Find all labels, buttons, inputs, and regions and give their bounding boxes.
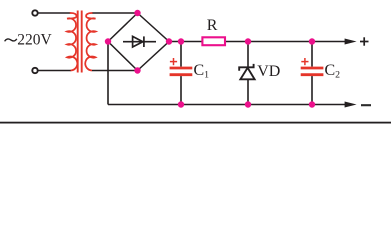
svg-text:C1: C1	[194, 62, 210, 80]
wire positive rail: resistor to arrow	[224, 41, 347, 43]
svg-text:VD: VD	[257, 63, 280, 80]
bridge rectifier diamond	[108, 13, 169, 71]
wire C1 bottom lead	[180, 76, 182, 104]
output arrow positive	[345, 39, 357, 45]
junction node C2 top	[309, 38, 315, 44]
output arrow negative	[345, 102, 357, 108]
label ~220V	[5, 32, 53, 49]
wire positive rail: bridge right corner to resistor	[169, 41, 203, 43]
junction node C1 bottom	[178, 101, 184, 107]
wire top-left to transformer primary	[38, 12, 70, 14]
junction node bridge right	[166, 38, 172, 44]
svg-text:220V: 220V	[17, 32, 52, 49]
transformer T core	[78, 11, 82, 73]
zener diode VD	[239, 64, 254, 79]
wire secondary bottom to bridge bottom corner	[92, 70, 138, 72]
diode D inside bridge	[123, 36, 156, 47]
wire bridge left corner down to negative rail	[107, 42, 109, 105]
junction node C1 top	[178, 38, 184, 44]
svg-text:R: R	[207, 17, 218, 34]
terminal top-left	[32, 10, 37, 15]
wire C2 bottom lead	[311, 76, 313, 104]
wire VD top lead	[247, 42, 249, 67]
transformer T secondary winding	[85, 13, 95, 71]
capacitor C2 plates	[301, 68, 324, 75]
wire negative rail	[108, 104, 348, 106]
capacitor C1 polarity plus	[170, 58, 177, 65]
junction node bridge top	[134, 10, 140, 16]
terminal bottom-left	[32, 68, 37, 73]
capacitor C2 polarity plus	[301, 58, 308, 65]
junction node bridge bottom	[134, 67, 140, 73]
junction node bridge left	[105, 38, 111, 44]
wire VD bottom lead	[247, 79, 249, 104]
label minus output	[361, 104, 371, 106]
junction node C2 bottom	[309, 101, 315, 107]
wire C2 top lead	[311, 42, 313, 67]
svg-text:C2: C2	[325, 62, 341, 80]
transformer T primary winding	[67, 13, 77, 71]
label plus output	[360, 37, 369, 45]
wire secondary top to bridge top corner	[93, 12, 138, 14]
resistor R	[202, 37, 225, 45]
capacitor C1 plates	[170, 68, 193, 75]
junction node VD top	[245, 38, 251, 44]
wire C1 top lead	[180, 42, 182, 67]
figure bottom border line	[0, 122, 391, 124]
junction node VD bottom	[245, 101, 251, 107]
wire bottom-left to transformer primary	[38, 70, 71, 72]
